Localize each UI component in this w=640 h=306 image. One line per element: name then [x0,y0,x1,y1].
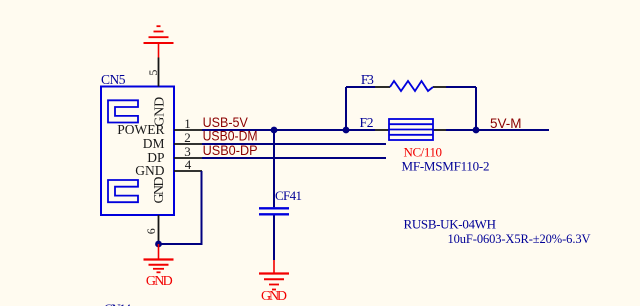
wire pin4 to ground junction [159,171,202,244]
wire USB0-DM (pin2) [202,143,386,145]
wire F3 branch top left [346,86,375,88]
wire CF41 top (USB-5V down to capacitor) [273,130,275,207]
svg-text:2: 2 [184,130,191,145]
pin 1 (CN5, POWER) [117,116,202,137]
svg-text:1: 1 [184,116,191,131]
svg-text:CN14: CN14 [104,301,132,306]
fuse F2 [360,115,447,140]
svg-text:CF41: CF41 [275,188,302,203]
wire F3 branch top right [446,86,476,88]
wire USB-5V (pin1 to fuse F2 left) [202,129,375,131]
connector CN5 body [101,87,174,216]
svg-text:5V-M: 5V-M [490,115,522,131]
svg-text:10uF-0603-X5R-±20%-6.3V: 10uF-0603-X5R-±20%-6.3V [448,232,591,246]
svg-text:6: 6 [144,228,158,234]
wire 5V-M (fuse right to stub end) [446,129,549,131]
capacitor CF41 [259,188,302,214]
ground symbol GND (bottom left) [144,244,174,272]
pin 3 (CN5, DP) [147,144,202,165]
svg-text:NC/110: NC/110 [404,145,443,160]
svg-text:RUSB-UK-04WH: RUSB-UK-04WH [404,217,497,232]
svg-text:MF-MSMF110-2: MF-MSMF110-2 [402,159,490,174]
svg-text:F3: F3 [361,72,374,87]
USB icon (top) [108,100,138,122]
wire F3 branch left vertical [345,87,347,130]
junction (CF41 tap on USB-5V) [271,127,278,134]
pin 4 (CN5, GND) [135,157,202,178]
svg-text:F2: F2 [360,115,374,130]
svg-text:GND: GND [261,289,287,304]
wire USB0-DP (pin3) [202,157,386,159]
junction (pin6/pin4 ground node) [155,241,162,248]
svg-text:GND: GND [152,177,167,204]
svg-text:GND: GND [146,274,173,289]
wire CF41 bottom (capacitor to ground) [273,216,275,261]
USB icon (bottom) [108,180,138,202]
wire F3 branch right vertical [475,87,477,130]
pin 6 (CN5, GND) [144,177,167,245]
svg-text:CN5: CN5 [101,72,126,87]
junction (F3 right branch on 5V-M) [473,127,480,134]
svg-text:GND: GND [135,163,164,178]
svg-text:DM: DM [143,136,165,151]
ground symbol GND (below CF41) [259,260,289,290]
resistor F3 [361,72,446,91]
junction (F3 left branch on USB-5V) [343,127,350,134]
svg-text:4: 4 [185,157,192,172]
ground symbol (top, above CN5 pin 5) [144,26,174,57]
svg-text:POWER: POWER [117,122,164,137]
pin 2 (CN5, DM) [143,130,202,151]
pin 5 (CN5, GND) [146,58,168,127]
svg-text:5: 5 [146,70,160,76]
